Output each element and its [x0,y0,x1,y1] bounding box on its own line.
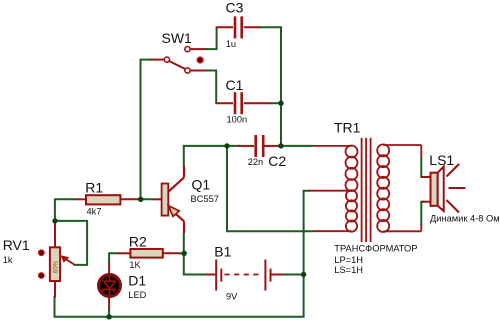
potentiometer RV1 [50,222,75,298]
speaker sound rays [447,164,466,213]
wire C1 right to bus [269,102,281,104]
svg-text:C2: C2 [268,153,286,169]
svg-text:B1: B1 [214,244,231,260]
value 4k7 [87,206,102,216]
red marker RV1 pin3 [38,272,45,279]
svg-text:1K: 1K [129,260,141,270]
value LED [128,290,146,300]
label RV1 [3,237,30,253]
value LS=1H [334,265,363,275]
svg-text:1u: 1u [226,39,236,49]
value 100n [227,114,248,124]
svg-text:C1: C1 [226,77,244,93]
svg-text:LS1: LS1 [429,152,454,168]
wire R2 right to emitter line [179,252,185,254]
red marker RV1 pin1 [38,249,45,256]
svg-text:60%: 60% [54,260,60,273]
value 9V [226,292,238,302]
wire primary mid tap down to battery plus and ground rail [109,191,309,317]
battery B1 [206,260,284,291]
svg-text:SW1: SW1 [162,30,193,46]
wire Q1 collector to C2 left [184,146,240,167]
value 1u [226,39,236,49]
svg-text:TR1: TR1 [334,120,361,136]
value Dinamik 4-8 Om [430,214,500,224]
transformer TR1 secondary winding [377,144,421,232]
red marker at SW1 [197,56,204,63]
svg-text:Q1: Q1 [192,176,211,192]
transformer TR1 primary winding bottom [309,190,358,232]
wire RV1 wiper loop [55,221,87,265]
wire SW1 upper throw to C3 left [205,27,217,49]
value 22n [248,157,264,167]
node R2 right emitter [182,251,187,256]
svg-text:4k7: 4k7 [87,206,102,216]
value 1K [129,260,141,270]
svg-text:BC557: BC557 [191,194,219,204]
svg-text:9V: 9V [226,292,238,302]
wire R1 right to Q1 base [138,198,155,200]
value 1k [3,255,13,265]
wire SW1 lower throw to C1 left [205,71,216,104]
wire C3 right down right bus [259,27,281,146]
svg-text:Динамик 4-8 Ом: Динамик 4-8 Ом [430,214,500,224]
wire R1 left to RV1 top [55,199,77,222]
svg-text:1k: 1k [3,255,13,265]
label C1 [226,77,244,93]
label D1 [128,272,146,288]
transformer TR1 primary winding top [313,146,358,192]
svg-text:100n: 100n [227,114,248,124]
svg-text:ТРАНСФОРМАТОР: ТРАНСФОРМАТОР [334,244,417,254]
label TR1 [334,120,361,136]
label C3 [226,0,244,16]
resistor R1 [76,195,139,204]
label C2 [268,153,286,169]
node R1 right base [138,197,143,202]
node C2 left [224,143,229,148]
svg-text:R1: R1 [85,180,103,196]
wire battery right to mid tap line [283,274,304,276]
wire Q1 emitter down to battery left [184,232,207,275]
svg-text:22n: 22n [248,157,264,167]
wire ground rail left [55,297,110,317]
wire switch pole to left vertical [141,60,153,200]
label Q1 [192,176,211,192]
wire secondary top to speaker [421,156,424,177]
transformer TR1 core [362,138,371,242]
wire C2 right to transformer primary top [277,145,313,147]
node C2 right [278,143,283,148]
wire R2 left down to LED anode [109,253,119,264]
svg-text:R2: R2 [129,233,147,249]
label B1 [214,244,231,260]
value LP=1H [334,255,363,265]
capacitor C1 [215,92,270,114]
svg-text:LED: LED [128,290,146,300]
capacitor C3 [216,16,260,38]
node LED ground [106,314,111,319]
transistor Q1 [154,166,184,233]
value TRANSFORMATOR [334,244,417,254]
label SW1 [162,30,193,46]
resistor R2 [118,249,179,258]
wire LED cathode to ground rail [108,307,110,317]
LED D1 [99,263,121,309]
node battery plus [301,272,306,277]
node RV1 top [52,218,57,223]
label R1 [85,180,103,196]
capacitor C2 [238,135,278,157]
svg-text:D1: D1 [128,272,146,288]
svg-text:C3: C3 [226,0,244,16]
svg-text:LP=1H: LP=1H [334,255,363,265]
switch SW1 [151,47,206,74]
wire C2 left junction down to primary bottom [227,146,313,231]
label LS1 [429,152,454,168]
node C1 right bus [278,101,283,106]
wire RV1 bottom to ground rail [54,296,56,317]
wire speaker bottom to secondary bottom [421,202,424,225]
label R2 [129,233,147,249]
svg-text:RV1: RV1 [3,237,30,253]
speaker LS1 [422,167,444,212]
value BC557 [191,194,219,204]
svg-text:LS=1H: LS=1H [334,265,363,275]
